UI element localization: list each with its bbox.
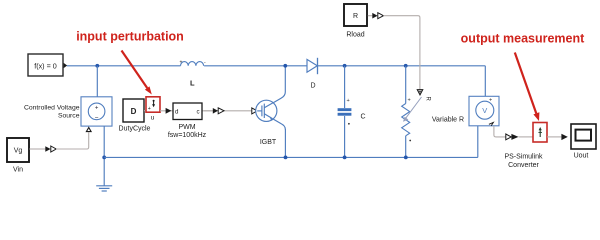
arrow: PWM input	[166, 108, 172, 114]
variable arrow over resistor	[405, 97, 422, 120]
wire: bottom rail	[104, 156, 478, 158]
wire: resistor branch top	[405, 66, 407, 104]
arrow: Rload simulink arrow	[372, 13, 377, 19]
annotation arrow to perturbation block	[122, 51, 148, 89]
svg-text:L: L	[190, 79, 195, 88]
transistor IGBT	[256, 92, 286, 130]
voltage sensor V	[469, 96, 499, 126]
svg-text:+: +	[489, 98, 492, 104]
svg-text:Vin: Vin	[13, 167, 23, 174]
diode D	[307, 59, 317, 72]
wire: bottom rail up to sensor	[477, 126, 479, 157]
arrow: PWM out PS port	[218, 108, 224, 114]
arrow: Uout input	[561, 134, 567, 140]
wire: perturbation to PWM	[160, 110, 213, 112]
arrow: simulink arrow	[511, 134, 518, 140]
svg-text:IGBT: IGBT	[260, 139, 277, 146]
wire: down to voltage sensor top	[484, 66, 486, 97]
output measurement block (red highlighted)	[533, 123, 547, 143]
port triangle of voltage source (signal input)	[86, 128, 91, 132]
arrow: Rload PS port	[378, 13, 384, 19]
svg-text:+: +	[95, 106, 99, 112]
svg-text:fsw=100kHz: fsw=100kHz	[168, 132, 207, 139]
controlled voltage source U1	[81, 97, 112, 126]
svg-text:Uout: Uout	[574, 153, 589, 160]
wire: to output measurement block	[519, 136, 534, 138]
svg-text:C: C	[360, 114, 365, 121]
svg-text:c: c	[197, 108, 200, 115]
block Vg	[7, 138, 29, 162]
node C: collector junction	[283, 64, 287, 68]
svg-text:output measurement: output measurement	[461, 32, 585, 46]
node B: ground junction	[102, 156, 106, 160]
svg-text:input perturbation: input perturbation	[76, 29, 184, 43]
svg-text:R: R	[425, 97, 431, 102]
wire: to Uout scope	[547, 136, 561, 138]
node H: resistor bottom junction	[404, 156, 408, 160]
block Rload	[344, 4, 367, 26]
wire: PWM to IGBT gate	[204, 110, 252, 112]
wire: D to perturbation block	[144, 110, 146, 112]
IGBT emitter arrowhead	[270, 116, 274, 121]
capacitor C	[338, 108, 352, 111]
svg-text:DutyCycle: DutyCycle	[119, 126, 151, 133]
svg-text:+: +	[148, 106, 151, 112]
svg-text:V: V	[482, 106, 487, 115]
svg-text:+: +	[347, 98, 350, 104]
wire: IGBT emitter to bottom rail	[284, 129, 286, 157]
wire: capacitor branch top	[344, 66, 346, 108]
svg-text:PS-Simulink: PS-Simulink	[504, 154, 543, 161]
svg-text:d: d	[175, 108, 179, 115]
wire: resistor branch bottom	[405, 136, 407, 158]
svg-text:D: D	[131, 107, 137, 116]
svg-text:Source: Source	[58, 112, 80, 119]
block PWM	[173, 103, 202, 120]
arrow: PS port	[506, 134, 511, 140]
wire: junction down to voltage source	[96, 66, 98, 97]
node E: capacitor top junction	[343, 64, 347, 68]
wire: top rail from f(x)=0 to inductor	[67, 65, 181, 67]
svg-text:u: u	[151, 114, 155, 121]
svg-text:Converter: Converter	[508, 162, 539, 169]
arrow: Vg PS port	[51, 146, 56, 152]
port: variable resistor R input	[417, 90, 422, 95]
ground	[96, 186, 112, 191]
port of f(x)=0	[64, 63, 68, 68]
block f(x)=0	[28, 54, 63, 76]
svg-text:f(x) = 0: f(x) = 0	[34, 61, 57, 70]
input perturbation block (red highlighted)	[146, 97, 160, 122]
svg-text:Vg: Vg	[14, 148, 23, 155]
wire: Rload out	[368, 15, 373, 17]
wire: Vg to voltage source triangle port	[56, 132, 88, 149]
svg-text:PWM: PWM	[178, 124, 195, 131]
svg-text:−: −	[95, 115, 99, 122]
svg-text:+: +	[180, 59, 183, 65]
svg-text:R: R	[353, 13, 358, 20]
svg-text:Variable R: Variable R	[432, 117, 464, 124]
wire: IGBT collector to top rail	[284, 66, 286, 92]
resistor Variable R (zigzag)	[402, 104, 410, 136]
inductor L	[181, 62, 204, 66]
arrow: IGBT gate port	[252, 108, 257, 114]
scope Uout	[571, 124, 596, 149]
wire: Vg output	[30, 148, 46, 150]
wire: top rail from inductor to sensor corner	[204, 65, 485, 67]
arrow: Vg simulink arrow	[45, 146, 50, 152]
node D: emitter junction	[284, 156, 288, 160]
node G: resistor top junction	[404, 64, 408, 68]
svg-text:+: +	[408, 98, 411, 104]
wire: voltage source bottom to ground node	[103, 126, 105, 186]
node F: capacitor bottom junction	[343, 156, 347, 160]
arrow: PWM out simulink	[213, 108, 218, 114]
block D (DutyCycle)	[123, 99, 144, 122]
wire: capacitor branch bottom	[344, 116, 346, 157]
node A: input rail junction	[95, 64, 99, 68]
wire: Rload to variable resistor R port	[383, 16, 420, 90]
svg-text:Controlled Voltage: Controlled Voltage	[24, 105, 80, 112]
annotation arrow to measurement block	[515, 53, 537, 114]
svg-text:D: D	[310, 83, 315, 90]
svg-text:Rload: Rload	[346, 32, 364, 39]
wire: sensor output to PS-Simulink converter	[494, 126, 506, 137]
